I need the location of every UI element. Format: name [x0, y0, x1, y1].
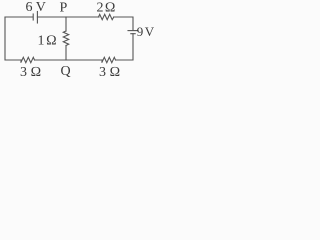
wire top-right segment [114, 17, 133, 30]
resistor 2ohm [99, 14, 114, 19]
resistor 3ohm left [21, 57, 35, 62]
resistor 1ohm vertical [63, 31, 68, 46]
wire bottom-left + left segment [5, 17, 21, 60]
svg-text:2Ω: 2Ω [97, 1, 116, 16]
node P junction [65, 17, 67, 31]
svg-text:1Ω: 1Ω [38, 34, 57, 49]
svg-text:Q: Q [61, 64, 71, 79]
node Q junction [65, 46, 67, 61]
battery 6V [33, 12, 37, 24]
resistor 3ohm right [102, 57, 116, 62]
svg-text:3 Ω: 3 Ω [99, 65, 120, 80]
wire top middle segment [37, 16, 99, 18]
wire right-lower segment [116, 34, 134, 60]
svg-text:P: P [60, 1, 68, 16]
svg-text:3 Ω: 3 Ω [20, 65, 41, 80]
battery 9V [128, 31, 138, 34]
svg-text:9V: 9V [137, 24, 155, 39]
wire top-left segment [5, 16, 33, 18]
svg-text:6 V: 6 V [26, 0, 46, 15]
wire bottom middle segment [35, 59, 103, 61]
